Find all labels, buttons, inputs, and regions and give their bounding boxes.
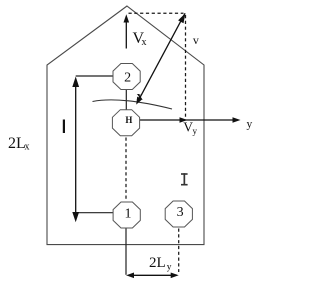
svg-text:H: H [125, 115, 132, 125]
svg-text:x: x [137, 88, 143, 102]
svg-text:y: y [247, 118, 253, 130]
svg-text:y: y [193, 126, 198, 136]
svg-text:y: y [167, 263, 172, 273]
svg-text:v: v [193, 33, 199, 47]
svg-text:x: x [142, 37, 147, 48]
svg-text:2L: 2L [8, 135, 26, 152]
svg-text:2L: 2L [149, 255, 166, 271]
svg-text:1: 1 [125, 206, 132, 221]
svg-text:3: 3 [177, 205, 184, 220]
svg-text:2: 2 [124, 71, 131, 86]
svg-text:x: x [25, 142, 30, 153]
